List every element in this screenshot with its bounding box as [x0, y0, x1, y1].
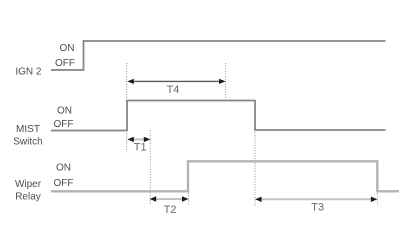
svg-text:IGN 2: IGN 2	[15, 67, 42, 78]
svg-text:T1: T1	[134, 142, 147, 154]
svg-text:Switch: Switch	[13, 137, 42, 148]
svg-text:ON: ON	[57, 105, 72, 116]
svg-text:OFF: OFF	[55, 58, 75, 69]
svg-text:OFF: OFF	[54, 178, 74, 189]
svg-text:ON: ON	[56, 163, 71, 174]
svg-text:MIST: MIST	[16, 124, 40, 135]
svg-text:T4: T4	[167, 84, 180, 96]
svg-text:Wiper: Wiper	[15, 179, 42, 190]
svg-text:OFF: OFF	[54, 119, 74, 130]
svg-text:T2: T2	[164, 204, 177, 216]
svg-text:Relay: Relay	[15, 191, 41, 202]
svg-text:ON: ON	[60, 43, 75, 54]
svg-text:T3: T3	[311, 202, 324, 214]
